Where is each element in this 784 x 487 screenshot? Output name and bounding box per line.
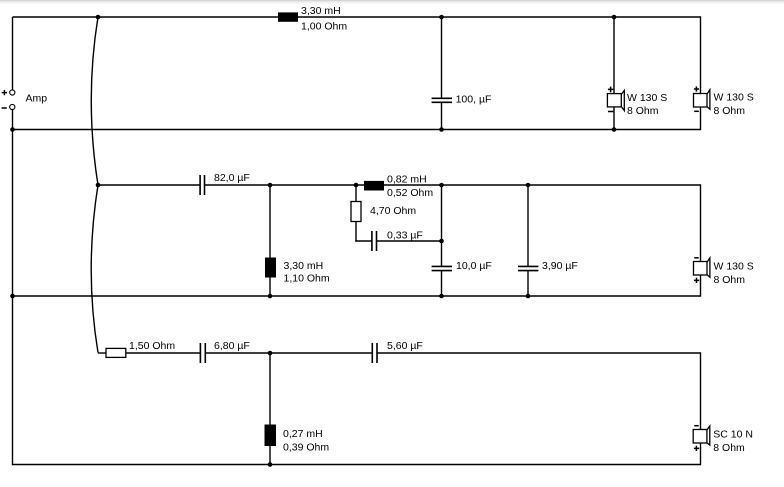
wire top rail: [13, 16, 701, 18]
wire 100uF branch lower: [441, 102, 443, 129]
resistor 4,70 Ohm: [351, 202, 361, 222]
junction bottom rail1 at x=614: [612, 127, 617, 132]
svg-text:Amp: Amp: [26, 92, 48, 104]
wire 3,9uF branch upper: [527, 185, 529, 266]
wire speaker3 to bottom rail: [700, 275, 702, 297]
label tweeter -: [694, 425, 699, 427]
capacitor 6,80 µF plates: [200, 343, 205, 363]
speaker W 130 S #3: [694, 258, 710, 277]
inductor 0,27 mH shunt: [265, 425, 277, 447]
label speaker3 +: [694, 278, 699, 283]
svg-text:0,33 µF: 0,33 µF: [387, 229, 423, 241]
svg-text:4,70 Ohm: 4,70 Ohm: [370, 205, 416, 217]
svg-text:3,90 µF: 3,90 µF: [542, 260, 578, 272]
svg-text:1,10 Ohm: 1,10 Ohm: [284, 272, 330, 284]
capacitor 10,0 µF plates: [432, 266, 452, 270]
node Amp + terminal: [10, 90, 15, 95]
junction bottom rail2 at x=12.5: [10, 294, 15, 299]
svg-text:0,82 mH: 0,82 mH: [387, 173, 427, 185]
junction midrange rail at x=441.5: [439, 183, 444, 188]
junction top rail at x=98: [96, 15, 101, 20]
wire resistor branch lower: [355, 222, 357, 242]
wire shunt inductor branch upper: [269, 185, 271, 258]
tweeter SC 10 N: [693, 426, 710, 445]
wire midrange rail right drop to speaker3: [700, 184, 702, 261]
svg-text:0,27 mH: 0,27 mH: [283, 428, 323, 440]
inductor 0,82 mH series (mid branch): [364, 181, 384, 191]
wire 100uF branch upper: [441, 17, 443, 98]
wire left rail from Amp- down: [12, 110, 14, 466]
capacitor 82,0 µF plates: [200, 175, 204, 195]
wire tweeter shunt inductor branch lower: [269, 446, 271, 465]
svg-text:1,00 Ohm: 1,00 Ohm: [301, 20, 347, 32]
junction midrange rail at x=98: [96, 183, 101, 188]
label speaker1 -: [608, 111, 613, 113]
speaker W 130 S #2: [694, 90, 710, 109]
wire curved feed to midrange rail: [91, 17, 98, 185]
wire 10uF branch upper: [441, 185, 443, 266]
inductor 3,30 mH series (woofer branch): [278, 12, 298, 21]
wire midrange rail right segment: [205, 184, 701, 186]
wire bottom rail section3: [13, 464, 701, 466]
toolbar strip: [0, 0, 784, 5]
svg-text:8 Ohm: 8 Ohm: [713, 442, 745, 454]
svg-text:W 130 S: W 130 S: [714, 91, 754, 103]
wire Amp+ terminal up to top rail: [12, 17, 14, 90]
wire tweeter to bottom rail: [700, 443, 702, 465]
svg-text:5,60 µF: 5,60 µF: [387, 340, 423, 352]
wire stub to series resistor: [98, 352, 107, 354]
wire speaker1 to bottom rail: [613, 107, 615, 130]
svg-text:0,39 Ohm: 0,39 Ohm: [283, 442, 329, 454]
node Amp - terminal: [10, 104, 15, 109]
wire tweeter rail segment 2: [205, 352, 372, 354]
label speaker2 -: [694, 110, 699, 112]
junction bottom rail2 at x=270: [268, 294, 273, 299]
svg-text:10,0 µF: 10,0 µF: [456, 260, 492, 272]
svg-text:3,30 mH: 3,30 mH: [301, 5, 341, 17]
svg-text:0,52 Ohm: 0,52 Ohm: [387, 187, 433, 199]
speaker W 130 S #1: [607, 90, 624, 110]
junction bottom rail1 at x=12.5: [10, 127, 15, 132]
wire zobel link left: [355, 240, 372, 242]
wire speaker2 to bottom rail: [700, 107, 702, 130]
wire 10uF branch lower: [441, 271, 443, 296]
wire curved feed to tweeter rail: [91, 185, 98, 353]
svg-text:8 Ohm: 8 Ohm: [714, 105, 746, 117]
wire speaker1 feed: [613, 17, 615, 94]
capacitor 0,33 µF plates: [372, 231, 377, 251]
label speaker2 +: [694, 86, 699, 91]
junction zobel link at x=441.5: [439, 239, 444, 244]
capacitor 100 µF plates: [432, 98, 452, 102]
junction bottom rail2 at x=528: [526, 294, 531, 299]
svg-text:100, µF: 100, µF: [456, 93, 492, 105]
label tweeter +: [694, 446, 699, 451]
wire top rail right drop to speaker2: [700, 16, 702, 93]
wire tweeter shunt inductor branch upper: [269, 353, 271, 425]
wire zobel link right: [377, 240, 442, 242]
svg-text:8 Ohm: 8 Ohm: [714, 274, 746, 286]
svg-text:82,0 µF: 82,0 µF: [214, 172, 250, 184]
svg-text:3,30 mH: 3,30 mH: [284, 260, 324, 272]
label Amp - polarity: [2, 107, 7, 109]
wire resistor branch upper: [355, 185, 357, 202]
label Amp + polarity: [2, 90, 7, 95]
capacitor 3,90 µF plates: [518, 266, 538, 270]
wire bottom rail section1: [13, 129, 701, 131]
junction top rail at x=441.5: [439, 15, 444, 20]
wire shunt inductor branch lower: [269, 278, 271, 297]
wire bottom rail section2: [13, 295, 701, 297]
junction top rail at x=614: [612, 15, 617, 20]
svg-text:8 Ohm: 8 Ohm: [627, 105, 659, 117]
junction bottom rail1 at x=441.5: [439, 127, 444, 132]
wire tweeter rail segment 1: [126, 352, 201, 354]
junction tweeter rail at x=270: [268, 351, 273, 356]
inductor 3,30 mH shunt: [265, 258, 276, 278]
svg-text:W 130 S: W 130 S: [714, 261, 754, 273]
svg-text:6,80 µF: 6,80 µF: [214, 340, 250, 352]
junction midrange rail at x=270: [268, 183, 273, 188]
svg-text:W 130 S: W 130 S: [627, 92, 667, 104]
junction bottom rail2 at x=441.5: [439, 294, 444, 299]
capacitor 5,60 µF plates: [372, 343, 377, 363]
wire tweeter rail right drop: [700, 352, 702, 429]
label speaker1 +: [608, 87, 614, 93]
label speaker3 -: [694, 257, 699, 259]
junction midrange rail at x=356: [354, 183, 359, 188]
junction midrange rail at x=528: [526, 183, 531, 188]
wire midrange rail left segment: [98, 184, 200, 186]
wire tweeter rail segment 3: [377, 352, 701, 354]
junction bottom rail3 at x=270: [268, 462, 273, 467]
svg-text:1,50 Ohm: 1,50 Ohm: [129, 340, 175, 352]
wire 3,9uF branch lower: [527, 271, 529, 296]
svg-text:SC 10 N: SC 10 N: [713, 428, 753, 440]
resistor 1,50 Ohm: [106, 348, 126, 357]
